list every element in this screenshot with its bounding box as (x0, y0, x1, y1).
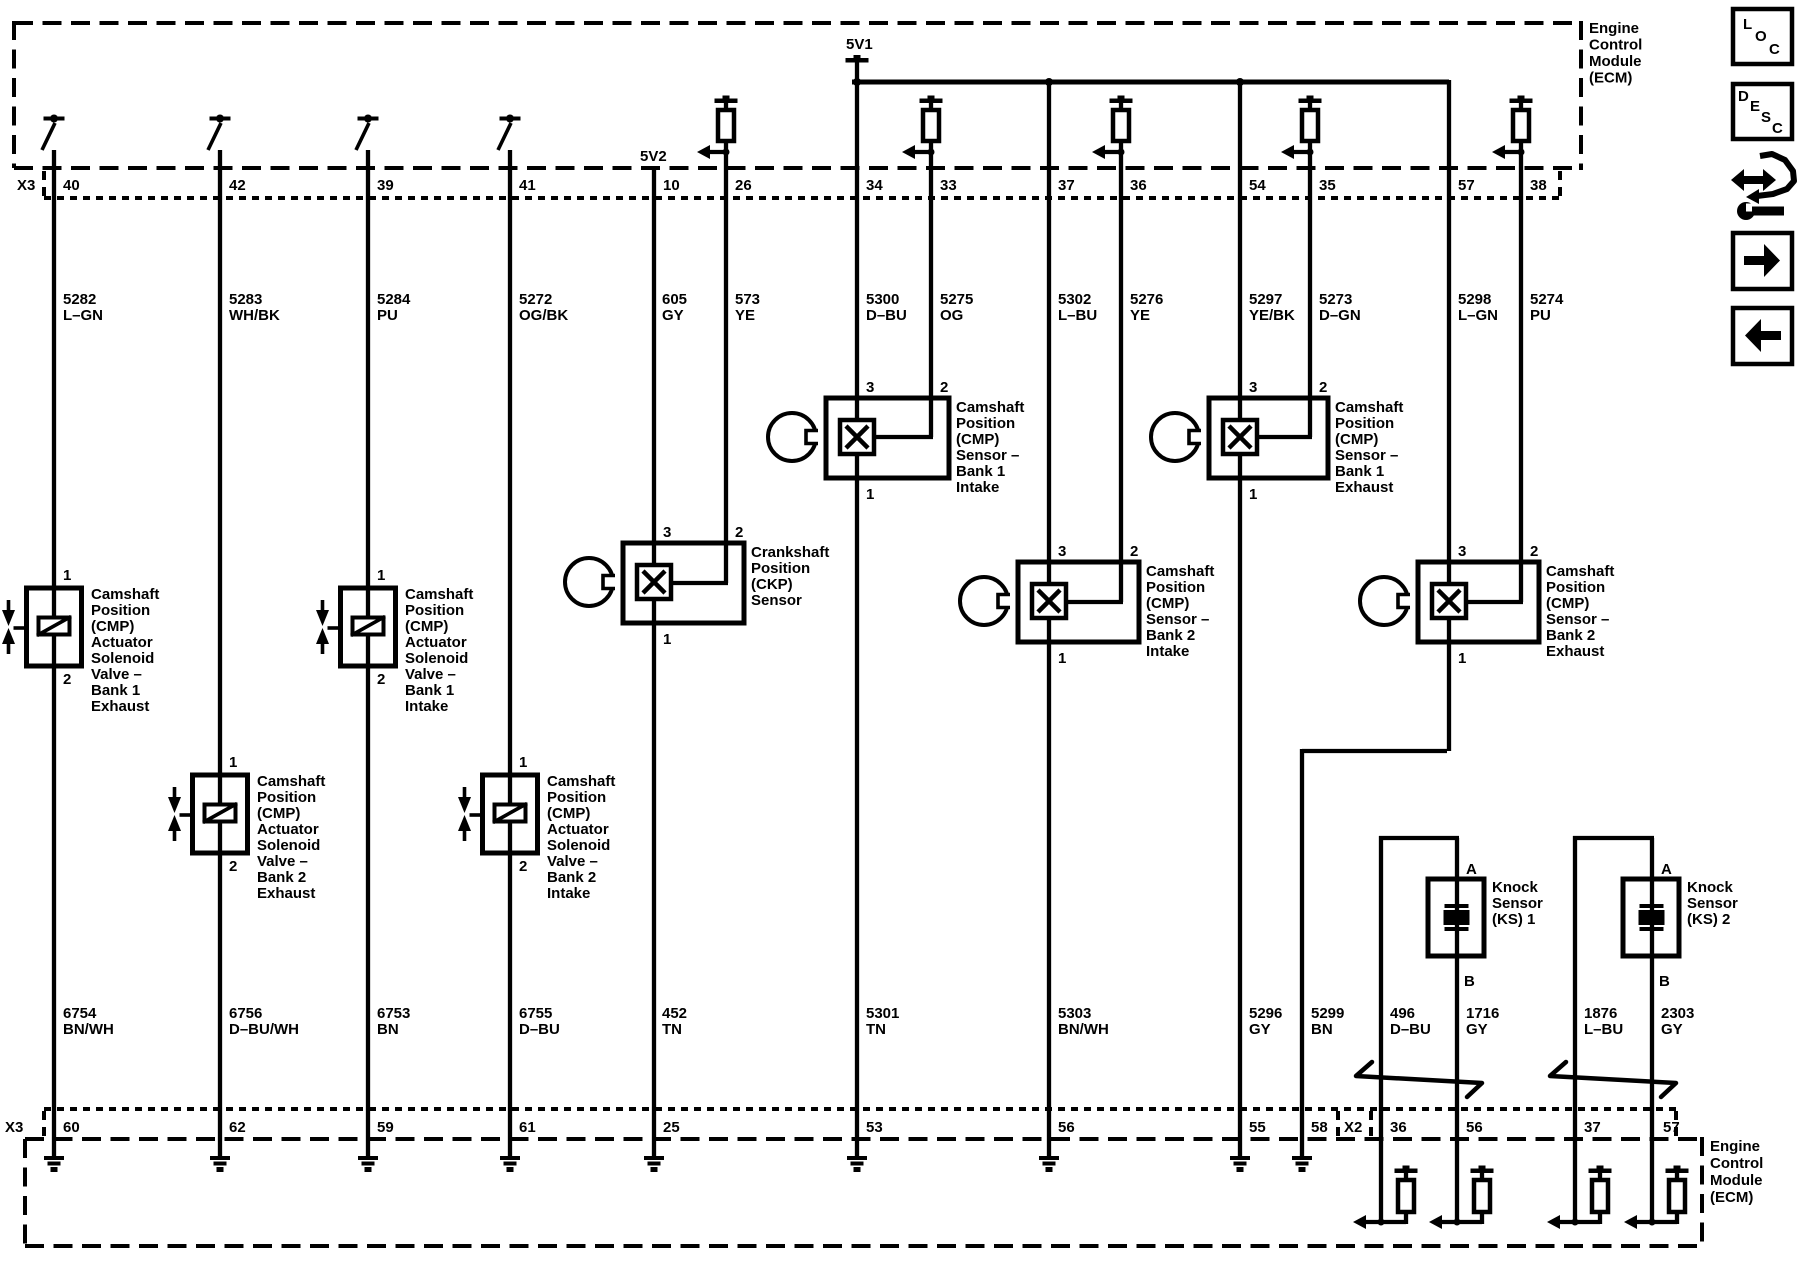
svg-text:Position: Position (91, 602, 150, 619)
icon: LOC button (1733, 9, 1792, 64)
svg-text:Position: Position (1146, 579, 1205, 596)
connector X3 top: ECM edge dashed line (14, 166, 1581, 170)
svg-text:BN/WH: BN/WH (1058, 1021, 1109, 1038)
svg-text:GY: GY (1661, 1021, 1683, 1038)
pin 1 label of S4 (519, 754, 527, 771)
svg-text:L–BU: L–BU (1584, 1021, 1623, 1038)
svg-text:A: A (1661, 861, 1672, 878)
svg-text:452: 452 (662, 1005, 687, 1022)
svg-text:L–BU: L–BU (1058, 307, 1097, 324)
sensor CMP B1 intake: sensing element (840, 420, 874, 454)
svg-text:Solenoid: Solenoid (91, 650, 154, 667)
ground (ECM internal, pin 61) (500, 1156, 520, 1172)
svg-text:1: 1 (519, 754, 527, 771)
wire label 5299 BN (1311, 1005, 1344, 1038)
pin 41 (X3 top) (519, 177, 536, 194)
sensor CMP B1 exhaust: box (1209, 398, 1328, 478)
sensor CMP B2 exhaust: sensing element (1432, 584, 1466, 618)
svg-text:Camshaft: Camshaft (91, 586, 159, 603)
svg-text:5273: 5273 (1319, 291, 1352, 308)
pin 55 (bottom connector) (1249, 1119, 1266, 1136)
sensor CMP B2 intake: box (1018, 562, 1139, 642)
component label S1 (91, 586, 159, 715)
wire label 6754 BN/WH (63, 1005, 114, 1038)
svg-text:Bank 1: Bank 1 (956, 463, 1005, 480)
pin 1 label of CMP B2 exhaust (1458, 650, 1466, 667)
solenoid S4: CMP actuator solenoid valve Bank 2 Intake (483, 775, 538, 853)
svg-text:1: 1 (229, 754, 237, 771)
connector X3/X2 bottom: ECM edge dashed line (25, 1137, 1702, 1141)
pin A label of KS2 (1661, 861, 1672, 878)
solenoid S2: CMP actuator solenoid valve Bank 2 Exhaust (193, 775, 248, 853)
ECM output driver Q3 driver pin 39 (356, 115, 379, 151)
svg-text:GY: GY (662, 307, 684, 324)
svg-text:56: 56 (1466, 1119, 1483, 1136)
svg-text:Crankshaft: Crankshaft (751, 544, 829, 561)
svg-text:Actuator: Actuator (91, 634, 153, 651)
pin 33 (X3 top) (940, 177, 957, 194)
svg-text:Sensor: Sensor (1687, 895, 1738, 912)
5V1 terminal (846, 55, 869, 84)
svg-text:C: C (1772, 120, 1783, 137)
wire 5300 D-BU / 5301 TN (5V1 to pin 53) (855, 82, 859, 1158)
sensor CKP: sensing element (637, 565, 671, 599)
ground (ECM internal, pin 58) (1292, 1156, 1312, 1172)
connector X2 separator left (1336, 1111, 1340, 1138)
svg-text:5282: 5282 (63, 291, 96, 308)
wire label 5275 OG (940, 291, 973, 324)
pin 2 label of S4 (519, 858, 527, 875)
svg-text:Bank 2: Bank 2 (1546, 627, 1595, 644)
svg-text:36: 36 (1390, 1119, 1407, 1136)
svg-text:37: 37 (1584, 1119, 1601, 1136)
svg-text:39: 39 (377, 177, 394, 194)
pin 25 (bottom connector) (663, 1119, 680, 1136)
component label KS2 (1687, 879, 1738, 928)
sensor CMP B1 intake: box (826, 398, 949, 478)
sensor CMP B2 exhaust: reluctor wheel (1360, 577, 1413, 625)
sensor CMP B2 intake: sensing element (1032, 584, 1066, 618)
svg-text:2: 2 (377, 671, 385, 688)
pin 54 (X3 top) (1249, 177, 1266, 194)
svg-text:S: S (1761, 109, 1771, 126)
svg-text:TN: TN (866, 1021, 886, 1038)
svg-text:5276: 5276 (1130, 291, 1163, 308)
svg-text:OG/BK: OG/BK (519, 307, 568, 324)
pin 1 label of CKP (663, 631, 671, 648)
pin 10 (X3 top) (663, 177, 680, 194)
valve actuator arrows for S3 (316, 600, 341, 654)
wire 5302 L-BU / 5303 BN/WH (5V1 to pin 56) (1047, 82, 1051, 1158)
wire 5298 L-GN / 5299 BN (5V1 to pin 58, jog) (1302, 80, 1449, 1158)
svg-text:TN: TN (662, 1021, 682, 1038)
connector X2 separator mid (1369, 1111, 1373, 1138)
svg-text:5299: 5299 (1311, 1005, 1344, 1022)
ECM output driver Q2 driver pin 42 (208, 115, 231, 151)
svg-text:Control: Control (1589, 37, 1642, 54)
svg-text:1: 1 (866, 486, 874, 503)
svg-text:42: 42 (229, 177, 246, 194)
svg-text:Actuator: Actuator (257, 821, 319, 838)
svg-text:BN: BN (377, 1021, 399, 1038)
pin 3 label of CMP B2 exhaust (1458, 543, 1466, 560)
wire label 2303 GY (1661, 1005, 1694, 1038)
5V1 bus wire (852, 80, 1449, 85)
svg-text:(KS) 2: (KS) 2 (1687, 911, 1730, 928)
pin 3 label of CMP B1 exhaust (1249, 379, 1257, 396)
svg-text:BN/WH: BN/WH (63, 1021, 114, 1038)
svg-text:5274: 5274 (1530, 291, 1564, 308)
wire label 605 GY (662, 291, 687, 324)
wire label 6755 D–BU (519, 1005, 560, 1038)
solenoid S3: CMP actuator solenoid valve Bank 1 Intake (341, 588, 396, 666)
svg-text:5275: 5275 (940, 291, 973, 308)
pin A label of KS1 (1466, 861, 1477, 878)
pin 61 (bottom connector) (519, 1119, 536, 1136)
component label KS1 (1492, 879, 1543, 928)
pin 56 (bottom connector) (1058, 1119, 1075, 1136)
wire label 5273 D–GN (1319, 291, 1361, 324)
ECM label (bottom right) (1710, 1138, 1763, 1206)
node: 5V1 at wire 5300 (853, 78, 861, 86)
pin 57 (X3 top) (1458, 177, 1475, 194)
svg-text:Module: Module (1589, 53, 1642, 70)
svg-text:B: B (1464, 973, 1475, 990)
sensor CMP B1 exhaust: reluctor wheel (1151, 413, 1204, 461)
svg-text:L–GN: L–GN (63, 307, 103, 324)
svg-text:Solenoid: Solenoid (405, 650, 468, 667)
svg-text:6753: 6753 (377, 1005, 410, 1022)
icon: back arrow button (1733, 308, 1792, 364)
svg-text:Camshaft: Camshaft (547, 773, 615, 790)
svg-text:57: 57 (1458, 177, 1475, 194)
svg-text:55: 55 (1249, 1119, 1266, 1136)
svg-text:2: 2 (229, 858, 237, 875)
svg-text:1716: 1716 (1466, 1005, 1499, 1022)
svg-text:YE/BK: YE/BK (1249, 307, 1295, 324)
component label CMP B1 intake (956, 399, 1024, 496)
svg-text:54: 54 (1249, 177, 1266, 194)
svg-text:Bank 1: Bank 1 (1335, 463, 1384, 480)
ground (ECM internal, pin 25) (644, 1156, 664, 1172)
pin 1 label of CMP B1 exhaust (1249, 486, 1257, 503)
svg-text:5301: 5301 (866, 1005, 899, 1022)
wire 2303 GY (KS2 pin B down to X2 pin 57) (1650, 838, 1654, 1222)
connector X3 label (17, 177, 35, 194)
wire CMP B2 exhaust pin2 stub (1466, 600, 1523, 604)
svg-text:Valve –: Valve – (405, 666, 456, 683)
sensor CMP B2 intake: reluctor wheel (960, 577, 1013, 625)
icon: repair/x-ref (double arrow + wrench) (1731, 154, 1794, 220)
svg-text:Camshaft: Camshaft (405, 586, 473, 603)
component label S4 (547, 773, 615, 902)
connector X3 separator left (42, 171, 46, 198)
svg-text:1: 1 (663, 631, 671, 648)
svg-text:2: 2 (735, 524, 743, 541)
ECM module box (top) (14, 21, 1581, 170)
svg-text:Exhaust: Exhaust (257, 885, 315, 902)
svg-text:3: 3 (663, 524, 671, 541)
svg-text:Valve –: Valve – (257, 853, 308, 870)
wire label 1876 L–BU (1584, 1005, 1623, 1038)
pin 2 label of CKP (735, 524, 743, 541)
connector X3 bottom separator left (42, 1111, 46, 1138)
resistor R2 (5275 OG) with 5V pull-up arrow (902, 96, 943, 160)
svg-text:60: 60 (63, 1119, 80, 1136)
svg-text:D–BU/WH: D–BU/WH (229, 1021, 299, 1038)
svg-text:Exhaust: Exhaust (91, 698, 149, 715)
pin 60 (bottom connector) (63, 1119, 80, 1136)
svg-text:61: 61 (519, 1119, 536, 1136)
svg-text:Position: Position (257, 789, 316, 806)
node: 5V1 at wire 5297 (1236, 78, 1244, 86)
wire label 5276 YE (1130, 291, 1163, 324)
resistor R8 (1876 L-BU) bias network (1547, 1166, 1612, 1230)
wire label 5300 D–BU (866, 291, 907, 324)
pin 35 (X3 top) (1319, 177, 1336, 194)
svg-text:Bank 1: Bank 1 (405, 682, 454, 699)
pin 56 (bottom connector) (1466, 1119, 1483, 1136)
svg-text:Position: Position (751, 560, 810, 577)
svg-text:(CMP): (CMP) (257, 805, 300, 822)
svg-text:5296: 5296 (1249, 1005, 1282, 1022)
svg-text:C: C (1769, 41, 1780, 58)
node: 5V1 at wire 5302 (1045, 78, 1053, 86)
sensor CMP B1 intake: reluctor wheel (768, 413, 821, 461)
svg-text:Intake: Intake (1146, 643, 1189, 660)
pin 38 (X3 top) (1530, 177, 1547, 194)
svg-text:D–BU: D–BU (519, 1021, 560, 1038)
svg-text:(CMP): (CMP) (91, 618, 134, 635)
valve actuator arrows for S4 (458, 787, 483, 841)
wire 5276 YE (pin 36 to CMP B2 intake pin 2) (1119, 152, 1123, 602)
resistor R5 (5274 PU) with 5V pull-up arrow (1492, 96, 1533, 160)
pin 2 label of S2 (229, 858, 237, 875)
component label S2 (257, 773, 325, 902)
svg-text:1: 1 (63, 567, 71, 584)
pin 62 (bottom connector) (229, 1119, 246, 1136)
icon: forward arrow button (1733, 233, 1792, 289)
sensor CKP: reluctor wheel (565, 558, 618, 606)
pin 1 label of CMP B1 intake (866, 486, 874, 503)
svg-text:2: 2 (940, 379, 948, 396)
svg-text:D–GN: D–GN (1319, 307, 1361, 324)
svg-text:Engine: Engine (1710, 1138, 1760, 1155)
svg-text:(CMP): (CMP) (1335, 431, 1378, 448)
svg-text:41: 41 (519, 177, 536, 194)
svg-text:573: 573 (735, 291, 760, 308)
wire 496 D-BU (X2 pin 36 up and over to KS1 pin A) (1379, 836, 1459, 1222)
svg-text:3: 3 (1458, 543, 1466, 560)
svg-text:Camshaft: Camshaft (1546, 563, 1614, 580)
svg-text:(CMP): (CMP) (1546, 595, 1589, 612)
svg-text:WH/BK: WH/BK (229, 307, 280, 324)
sensor CKP: box (623, 543, 744, 623)
wire label 5272 OG/BK (519, 291, 568, 324)
svg-text:Valve –: Valve – (91, 666, 142, 683)
svg-text:E: E (1750, 98, 1760, 115)
wire label 5282 L–GN (63, 291, 103, 324)
ground (ECM internal, pin 55) (1230, 1156, 1250, 1172)
svg-text:GY: GY (1466, 1021, 1488, 1038)
pin 1 label of S2 (229, 754, 237, 771)
wire 5274 PU (pin 38 to CMP B2 exhaust pin 2) (1519, 152, 1523, 602)
knock sensor KS1 (1428, 879, 1484, 956)
svg-text:Camshaft: Camshaft (257, 773, 325, 790)
component label CKP (751, 544, 829, 609)
wire 5283 WH/BK (pin 42 to pin 62) (218, 150, 222, 1158)
svg-text:2: 2 (1319, 379, 1327, 396)
wire label 1716 GY (1466, 1005, 1499, 1038)
pin 3 label of CMP B1 intake (866, 379, 874, 396)
pin 37 (X3 top) (1058, 177, 1075, 194)
svg-text:1: 1 (1058, 650, 1066, 667)
svg-text:B: B (1659, 973, 1670, 990)
svg-text:(ECM): (ECM) (1589, 70, 1632, 87)
twisted pair marker for KS1 wires (1356, 1062, 1482, 1097)
wire label 6753 BN (377, 1005, 410, 1038)
svg-text:5284: 5284 (377, 291, 411, 308)
svg-text:35: 35 (1319, 177, 1336, 194)
pin 26 (X3 top) (735, 177, 752, 194)
svg-text:Bank 2: Bank 2 (257, 869, 306, 886)
svg-text:Sensor: Sensor (751, 592, 802, 609)
svg-text:5297: 5297 (1249, 291, 1282, 308)
wire 5275 OG (pin 33 to CMP B1 intake pin 2) (929, 152, 933, 437)
svg-text:605: 605 (662, 291, 687, 308)
twisted pair marker for KS2 wires (1550, 1062, 1676, 1097)
svg-text:PU: PU (1530, 307, 1551, 324)
svg-text:BN: BN (1311, 1021, 1333, 1038)
svg-text:X3: X3 (17, 177, 35, 194)
connector X2 separator right (1674, 1111, 1678, 1138)
pin 40 (X3 top) (63, 177, 80, 194)
pin 2 label of S3 (377, 671, 385, 688)
svg-text:1: 1 (1249, 486, 1257, 503)
wire label 5283 WH/BK (229, 291, 280, 324)
svg-text:58: 58 (1311, 1119, 1328, 1136)
svg-text:Exhaust: Exhaust (1335, 479, 1393, 496)
wire 5284 PU (pin 39 to pin 59) (366, 150, 370, 1158)
component label CMP B2 intake (1146, 563, 1214, 660)
wire label 5284 PU (377, 291, 411, 324)
svg-text:Intake: Intake (956, 479, 999, 496)
svg-text:33: 33 (940, 177, 957, 194)
svg-text:D–BU: D–BU (866, 307, 907, 324)
svg-text:OG: OG (940, 307, 963, 324)
wire CMP B1 intake pin2 stub (874, 435, 933, 439)
svg-text:Solenoid: Solenoid (257, 837, 320, 854)
wire label 5301 TN (866, 1005, 899, 1038)
svg-text:Position: Position (547, 789, 606, 806)
svg-text:Intake: Intake (405, 698, 448, 715)
valve actuator arrows for S1 (2, 600, 27, 654)
svg-text:Camshaft: Camshaft (1335, 399, 1403, 416)
svg-text:3: 3 (1249, 379, 1257, 396)
svg-text:2: 2 (63, 671, 71, 688)
svg-text:Sensor –: Sensor – (1546, 611, 1609, 628)
wire label 5298 L–GN (1458, 291, 1498, 324)
pin 59 (bottom connector) (377, 1119, 394, 1136)
sensor CMP B1 exhaust: sensing element (1223, 420, 1257, 454)
component label CMP B2 exhaust (1546, 563, 1614, 660)
icon: DESC button (1733, 84, 1792, 139)
valve actuator arrows for S2 (168, 787, 193, 841)
svg-text:59: 59 (377, 1119, 394, 1136)
pin 53 (bottom connector) (866, 1119, 883, 1136)
wire 605 GY / 452 TN (pin 10 to pin 25) (652, 168, 656, 1158)
ground (ECM internal, pin 53) (847, 1156, 867, 1172)
svg-text:Exhaust: Exhaust (1546, 643, 1604, 660)
svg-text:Position: Position (1335, 415, 1394, 432)
svg-text:26: 26 (735, 177, 752, 194)
ground (ECM internal, pin 62) (210, 1156, 230, 1172)
wire label 5274 PU (1530, 291, 1564, 324)
svg-text:36: 36 (1130, 177, 1147, 194)
svg-text:D–BU: D–BU (1390, 1021, 1431, 1038)
svg-text:Intake: Intake (547, 885, 590, 902)
5V1 net label (846, 36, 873, 53)
ECM output driver Q4 driver pin 41 (498, 115, 521, 151)
svg-text:6754: 6754 (63, 1005, 97, 1022)
pin B label of KS1 (1464, 973, 1475, 990)
svg-text:Sensor –: Sensor – (956, 447, 1019, 464)
svg-text:Position: Position (405, 602, 464, 619)
wire label 5297 YE/BK (1249, 291, 1295, 324)
svg-text:37: 37 (1058, 177, 1075, 194)
svg-text:O: O (1755, 28, 1767, 45)
svg-text:25: 25 (663, 1119, 680, 1136)
pin 2 label of CMP B2 exhaust (1530, 543, 1538, 560)
svg-text:5303: 5303 (1058, 1005, 1091, 1022)
svg-text:Bank 1: Bank 1 (91, 682, 140, 699)
component label S3 (405, 586, 473, 715)
svg-text:Camshaft: Camshaft (956, 399, 1024, 416)
svg-text:Position: Position (956, 415, 1015, 432)
5V2 net label (640, 148, 667, 165)
svg-text:40: 40 (63, 177, 80, 194)
wire 5272 OG/BK (pin 41 to pin 61) (508, 150, 512, 1158)
svg-text:2: 2 (1530, 543, 1538, 560)
resistor R4 (5273 D-GN) with 5V pull-up arrow (1281, 96, 1322, 160)
svg-text:Sensor: Sensor (1492, 895, 1543, 912)
svg-text:5283: 5283 (229, 291, 262, 308)
svg-text:2: 2 (1130, 543, 1138, 560)
svg-text:Solenoid: Solenoid (547, 837, 610, 854)
svg-text:L–GN: L–GN (1458, 307, 1498, 324)
wire CMP B2 intake pin2 stub (1066, 600, 1123, 604)
wire 573 YE (pin 26 to CKP pin 2) (724, 152, 728, 583)
pin 39 (X3 top) (377, 177, 394, 194)
pin 42 (X3 top) (229, 177, 246, 194)
svg-text:Actuator: Actuator (405, 634, 467, 651)
pin 1 label of S3 (377, 567, 385, 584)
wire CKP pin2 stub (671, 581, 728, 585)
pin 1 label of CMP B2 intake (1058, 650, 1066, 667)
svg-text:Actuator: Actuator (547, 821, 609, 838)
svg-text:(ECM): (ECM) (1710, 1189, 1753, 1206)
svg-text:(CMP): (CMP) (547, 805, 590, 822)
wire 5282 L-GN (pin 40 to pin 60) (52, 150, 56, 1158)
pin 36 (X3 top) (1130, 177, 1147, 194)
svg-text:5302: 5302 (1058, 291, 1091, 308)
wire label 496 D–BU (1390, 1005, 1431, 1038)
pin 3 label of CMP B2 intake (1058, 543, 1066, 560)
svg-text:2303: 2303 (1661, 1005, 1694, 1022)
svg-text:1: 1 (1458, 650, 1466, 667)
svg-text:3: 3 (866, 379, 874, 396)
svg-text:Control: Control (1710, 1155, 1763, 1172)
